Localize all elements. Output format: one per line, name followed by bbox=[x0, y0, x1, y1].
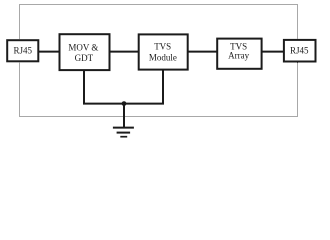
svg-text:RJ45: RJ45 bbox=[290, 46, 309, 56]
svg-text:Array: Array bbox=[228, 51, 249, 61]
svg-text:RJ45: RJ45 bbox=[14, 46, 33, 56]
svg-text:Module: Module bbox=[149, 52, 177, 62]
svg-text:TVS: TVS bbox=[154, 42, 171, 52]
svg-text:MOV &: MOV & bbox=[68, 42, 98, 52]
svg-text:GDT: GDT bbox=[75, 53, 94, 63]
